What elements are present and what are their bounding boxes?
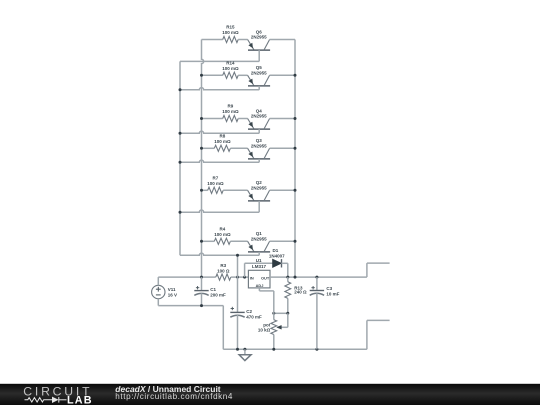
- svg-text:C2: C2: [246, 309, 252, 314]
- resistor R14 100 mOhm: [202, 60, 248, 78]
- diode D1 1N4007: [245, 248, 288, 277]
- svg-text:Q5: Q5: [256, 65, 263, 70]
- svg-text:R9: R9: [228, 104, 234, 109]
- svg-text:100 mΩ: 100 mΩ: [222, 109, 239, 114]
- resistor R4 100 mOhm: [202, 226, 248, 244]
- junction dot R13-pot link right: [286, 312, 289, 315]
- svg-text:100 mΩ: 100 mΩ: [222, 66, 239, 71]
- transistor Q5 2N2955: [248, 65, 295, 90]
- footer title text: [115, 384, 233, 401]
- svg-text:R3: R3: [220, 263, 226, 268]
- svg-text:http://circuitlab.com/cnfdkn4: http://circuitlab.com/cnfdkn4: [115, 392, 233, 401]
- wire Q5 base to bus A with hop over Vin bus: [180, 88, 259, 90]
- wire U1 OUT to output tab: [270, 276, 367, 278]
- junction dot base drop on IN line: [236, 276, 239, 279]
- wire ground rail: [223, 348, 367, 350]
- wire left rail down to ground rail: [222, 306, 224, 350]
- svg-text:IN: IN: [250, 275, 254, 280]
- transistor Q2 2N2955: [248, 180, 295, 212]
- svg-text:Q4: Q4: [256, 108, 263, 113]
- wire base bus drop to IN line: [237, 255, 239, 277]
- resistor R8 100 mOhm: [202, 133, 248, 151]
- svg-text:2N2955: 2N2955: [251, 236, 267, 241]
- voltage source V11 16 V: [152, 277, 177, 306]
- potentiometer pot 10 kOhm: [258, 313, 288, 349]
- junction dot bus B on IN line: [200, 276, 203, 279]
- wire Q3 base to bus A with hop over Vin bus: [180, 160, 259, 162]
- svg-text:Q3: Q3: [256, 138, 263, 143]
- svg-text:470 mF: 470 mF: [246, 314, 262, 319]
- wire R3 to U1 IN: [231, 276, 249, 278]
- wire output terminal plus: [367, 263, 390, 277]
- junction dot ground stem: [243, 348, 246, 351]
- svg-text:ADJ: ADJ: [256, 283, 264, 288]
- wire collector bus vertical: [294, 40, 296, 278]
- capacitor C1 200 mF: [194, 277, 226, 306]
- svg-text:C3: C3: [326, 286, 332, 291]
- transistor Q3 2N2955: [248, 138, 295, 162]
- wire Q1 base to bus A with hop over Vin bus: [180, 253, 259, 255]
- svg-text:2N2955: 2N2955: [251, 185, 267, 190]
- svg-text:V11: V11: [168, 287, 176, 292]
- junction dot C3 on ground rail: [315, 348, 318, 351]
- junction dots branch R7: [179, 189, 297, 214]
- svg-text:LAB: LAB: [67, 395, 93, 405]
- wire V11 plus to R3: [158, 276, 216, 278]
- svg-text:R4: R4: [220, 226, 226, 231]
- transistor Q6 2N2955: [248, 29, 295, 61]
- junction dot base bus at drop: [236, 254, 239, 257]
- resistor R15 100 mOhm: [202, 25, 248, 43]
- junction dots branch R4: [200, 240, 297, 243]
- svg-text:1N4007: 1N4007: [269, 253, 285, 258]
- wire Q4 base to bus A with hop over Vin bus: [180, 131, 259, 133]
- junction dots branch R8: [179, 147, 297, 164]
- svg-text:Q6: Q6: [256, 29, 263, 34]
- svg-text:2N2955: 2N2955: [251, 35, 267, 40]
- wire Q6 base to bus A: [180, 60, 259, 62]
- wire Vin bus B vertical with hop at Q6 base wire: [202, 40, 204, 278]
- resistor R9 100 mOhm: [202, 104, 248, 122]
- svg-text:C1: C1: [210, 287, 216, 292]
- wire R13 bottom to pot top: [274, 312, 288, 314]
- junction dot R13-pot link left: [272, 312, 275, 315]
- svg-text:R14: R14: [226, 60, 235, 65]
- svg-text:10 kΩ: 10 kΩ: [258, 328, 271, 333]
- transistor Q1 2N2955: [248, 231, 295, 255]
- wire output terminal minus: [367, 320, 390, 349]
- junction dots branch R9: [179, 117, 297, 135]
- wire V11 minus rail: [158, 305, 223, 307]
- svg-text:U1: U1: [256, 258, 262, 263]
- svg-text:100 Ω: 100 Ω: [217, 269, 230, 274]
- svg-text:OUT: OUT: [261, 275, 270, 280]
- resistor R13 240 Ohm: [285, 277, 307, 313]
- wire base bus A vertical: [179, 61, 181, 255]
- wire R13 bottom to wiper: [287, 313, 289, 327]
- svg-text:100 mΩ: 100 mΩ: [214, 232, 231, 237]
- svg-text:2N2955: 2N2955: [251, 70, 267, 75]
- junction dots branch R14: [179, 74, 297, 92]
- svg-text:D1: D1: [273, 248, 279, 253]
- svg-text:R7: R7: [213, 175, 219, 180]
- wire U1 ADJ to pot: [259, 288, 273, 313]
- svg-text:10 mF: 10 mF: [326, 291, 339, 296]
- junction dot C2 on ground rail: [236, 348, 239, 351]
- capacitor C3 10 mF: [310, 277, 340, 349]
- svg-text:240 Ω: 240 Ω: [294, 290, 307, 295]
- capacitor C2 470 mF: [230, 277, 262, 349]
- junction dot collector bus on OUT line: [294, 276, 297, 279]
- svg-text:2N2955: 2N2955: [251, 143, 267, 148]
- svg-text:100 mΩ: 100 mΩ: [207, 181, 224, 186]
- op-amp regulator U1 LM317: [248, 258, 270, 288]
- junction dot C1 on minus rail: [200, 304, 203, 307]
- svg-text:Q2: Q2: [256, 180, 263, 185]
- svg-text:2N2955: 2N2955: [251, 114, 267, 119]
- junction dot pot on ground rail: [272, 348, 275, 351]
- resistor R3 100 Ohm: [216, 263, 231, 280]
- ground: [239, 349, 251, 360]
- svg-text:100 mΩ: 100 mΩ: [222, 30, 239, 35]
- svg-text:R15: R15: [226, 25, 235, 30]
- svg-text:Q1: Q1: [256, 231, 263, 236]
- CircuitLab logo: [23, 385, 92, 405]
- wire Q2 base to bus A with hop over Vin bus: [180, 210, 259, 212]
- svg-text:R8: R8: [220, 133, 226, 138]
- svg-text:16 V: 16 V: [168, 292, 177, 297]
- transistor Q4 2N2955: [248, 108, 295, 133]
- svg-text:200 mF: 200 mF: [210, 292, 226, 297]
- junction dot D1 cathode on OUT line: [286, 276, 289, 279]
- svg-text:LM317: LM317: [252, 264, 267, 269]
- resistor R7 100 mOhm: [202, 175, 248, 193]
- svg-text:100 mΩ: 100 mΩ: [214, 139, 231, 144]
- junction dot D1 anode riser on IN line: [243, 276, 246, 279]
- svg-text:pot: pot: [263, 322, 270, 327]
- junction dot C3 on OUT line: [315, 276, 318, 279]
